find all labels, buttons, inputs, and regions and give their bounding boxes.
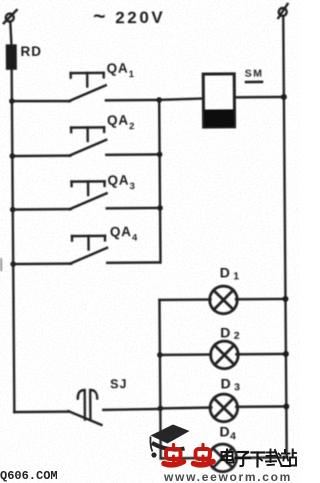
wire QA1 right — [106, 99, 159, 102]
node junction left bus QA4 — [10, 261, 16, 267]
pushbutton QA1 — [69, 73, 106, 101]
label SM — [245, 68, 264, 84]
wire D3 left — [160, 406, 211, 409]
wire QA1 left — [12, 99, 70, 102]
label QA2 — [107, 113, 134, 133]
lamp D3 — [210, 394, 238, 422]
time relay contact SJ — [68, 390, 101, 425]
wire D3 right — [236, 405, 286, 408]
wire D2 right — [236, 353, 285, 356]
node junction left bus QA2 — [10, 153, 16, 159]
svg-text:RD: RD — [20, 44, 42, 59]
wire SJ right — [103, 408, 160, 411]
svg-text:1: 1 — [233, 270, 239, 282]
svg-text:D: D — [219, 423, 229, 439]
fuse RD — [6, 45, 16, 69]
svg-text:4: 4 — [132, 233, 138, 244]
node junction right bus D1 — [282, 296, 288, 302]
watermark text dianzi xiazai zhan — [222, 450, 297, 467]
char dian — [222, 450, 234, 463]
node junction QA bus row3 — [157, 205, 163, 211]
node junction lamp bus D3 / SJ — [158, 406, 164, 412]
char zai — [266, 450, 282, 466]
svg-text:D: D — [221, 375, 231, 391]
char zhan — [282, 450, 297, 467]
node junction QA bus row1 — [156, 97, 162, 103]
node junction QA bus row2 — [157, 152, 163, 158]
watermark graduation cap — [150, 425, 189, 458]
wire QA3 right — [107, 207, 160, 210]
label D4 — [219, 423, 236, 442]
label D3 — [221, 375, 241, 393]
wire QA2 right — [106, 153, 159, 156]
right bus wire — [283, 16, 286, 457]
wire SM right — [236, 96, 284, 99]
lamp D4 — [209, 444, 237, 472]
svg-text:220V: 220V — [115, 8, 165, 27]
watermark text chongchong — [164, 445, 184, 465]
wire QA right bus — [159, 100, 160, 262]
wire D1 left — [159, 298, 210, 301]
lamp D1 — [210, 286, 238, 314]
svg-text:4: 4 — [230, 430, 236, 442]
terminal left (L supply) — [4, 10, 17, 23]
pushbutton QA2 — [69, 127, 106, 155]
wire D2 left — [160, 353, 211, 356]
svg-text:QA: QA — [107, 173, 129, 188]
label QA1 — [107, 61, 135, 81]
svg-text:SM: SM — [245, 68, 264, 80]
svg-text:www.eeworm.com: www.eeworm.com — [163, 470, 292, 483]
wire QA4 right — [107, 261, 160, 264]
pushbutton QA4 — [70, 236, 107, 264]
svg-text:2: 2 — [129, 121, 134, 132]
char xia — [252, 453, 265, 467]
node junction lamp bus D2 — [157, 352, 163, 358]
svg-text:2: 2 — [234, 330, 240, 342]
svg-text:QA: QA — [107, 113, 129, 128]
label ~220V — [93, 5, 165, 29]
wire D4 right — [235, 456, 286, 459]
wire QA4 left — [13, 262, 71, 265]
svg-text:~: ~ — [93, 5, 105, 28]
node junction right bus D3 — [283, 403, 289, 409]
svg-text:Q606.COM: Q606.COM — [0, 469, 58, 483]
node junction right bus D2 — [283, 351, 289, 357]
svg-text:1: 1 — [129, 69, 135, 80]
svg-text:SJ: SJ — [110, 377, 127, 391]
label D1 — [220, 264, 240, 282]
bell SM — [203, 74, 234, 127]
wire left bus top — [10, 22, 11, 46]
label QA3 — [107, 173, 134, 193]
wire lamp left bus — [159, 300, 160, 458]
wire left bus — [12, 69, 15, 412]
wire QA3 left — [13, 208, 71, 211]
terminal right (N supply) — [278, 4, 288, 18]
wire D1 right — [236, 298, 285, 301]
svg-text:QA: QA — [110, 224, 132, 239]
svg-text:3: 3 — [130, 181, 135, 192]
wire D4 left — [161, 457, 210, 460]
wire left bus to SJ — [14, 410, 69, 413]
char zi — [236, 452, 250, 466]
node junction right bus SM — [281, 94, 287, 100]
svg-text:D: D — [220, 264, 230, 280]
node junction left bus QA3 — [10, 207, 16, 213]
scan artifact left edge — [0, 258, 2, 271]
node junction left bus QA1 — [9, 98, 15, 104]
svg-text:3: 3 — [234, 381, 240, 393]
pushbutton QA3 — [70, 181, 107, 209]
wire to SM — [159, 99, 202, 100]
svg-text:D: D — [220, 324, 230, 340]
lamp D2 — [210, 341, 238, 369]
label D2 — [220, 324, 240, 342]
svg-text:QA: QA — [107, 61, 129, 76]
label QA4 — [110, 224, 138, 244]
wire QA2 left — [12, 154, 70, 157]
